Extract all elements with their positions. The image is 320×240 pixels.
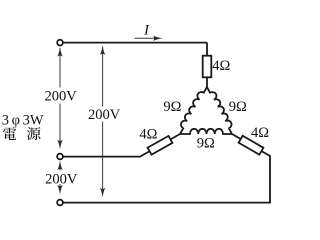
svg-text:200V: 200V [44,88,77,104]
svg-text:4Ω: 4Ω [212,58,230,74]
svg-text:200V: 200V [88,107,121,123]
svg-text:9Ω: 9Ω [197,136,215,152]
label source kanji DEN (electric) [3,127,16,140]
svg-text:I: I [143,23,150,39]
wire R3 to bottom bus [63,134,270,203]
inductor L3 9ohm (delta bottom side) [180,129,232,134]
current arrow I [135,37,159,39]
svg-text:9Ω: 9Ω [163,99,181,115]
resistor R3 4ohm (right tilted) [239,136,264,155]
inductor L2 9ohm (delta right side) [207,87,232,134]
wire right drop to R1 [206,43,208,56]
svg-text:4Ω: 4Ω [251,125,269,141]
terminal node U (top) [57,40,63,46]
wire top bus [63,42,207,44]
label source kanji GEN (source) [27,127,40,140]
svg-text:9Ω: 9Ω [229,99,247,115]
voltage arrow 200V (center, between top and bottom bus) [102,47,104,194]
voltage arrow 200V (bottom-left, between V and W) [59,167,61,189]
svg-text:3φ3W: 3φ3W [2,113,44,129]
resistor R1 4ohm (top) [203,56,212,78]
wire middle bus to R2 [63,134,180,157]
terminal node W (bottom) [57,200,63,206]
svg-text:4Ω: 4Ω [139,126,157,142]
resistor R2 4ohm (left tilted) [148,136,173,155]
voltage arrow 200V (top-left, between U and V) [59,48,61,147]
wire R1 to delta top node [206,77,208,87]
svg-text:200V: 200V [45,172,78,188]
terminal node V (middle) [57,154,63,160]
inductor L1 9ohm (delta left side) [180,87,207,134]
